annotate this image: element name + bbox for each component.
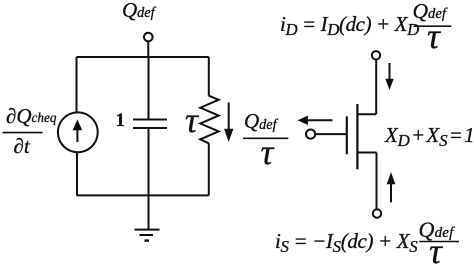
node Q_def terminal circle [144, 33, 153, 42]
wire left branch upper [76, 57, 78, 112]
arrow i_S (up) [390, 184, 392, 202]
transistor M1 drain tap [357, 113, 376, 115]
fraction bar Qdef/tau bottom formula [419, 241, 459, 243]
wire terminal stub [147, 41, 149, 57]
fraction bar Qdef/tau top formula [414, 25, 452, 27]
label Q_def (top) [122, 0, 155, 21]
capacitor C1 plates [133, 119, 167, 121]
label Q_def numerator (bottom formula fraction) [419, 219, 454, 241]
fraction bar Qdef/tau middle [243, 137, 288, 139]
ground symbol [135, 229, 160, 231]
arrow pointing left to gate [306, 119, 333, 121]
node gate terminal circle [306, 130, 315, 139]
label Q_def numerator (top formula fraction) [413, 1, 446, 23]
label tau denominator (top formula fraction) [427, 18, 440, 54]
label tau (resistor) [185, 102, 198, 138]
wire source lead [376, 153, 378, 209]
node source terminal circle [373, 209, 381, 217]
label dt denominator [14, 136, 30, 157]
transistor M1 source tap [357, 152, 376, 154]
transistor M1 gate bar [346, 116, 348, 154]
current source arrow [76, 128, 78, 142]
wire gate lead [315, 133, 347, 135]
label Q_def numerator (middle fraction) [244, 111, 277, 132]
wire ground lead [148, 195, 150, 229]
label tau denominator (bottom formula fraction) [429, 233, 442, 266]
resistor tau zigzag [200, 96, 218, 144]
arrow i_D (down) [389, 63, 391, 80]
wire left branch lower [76, 152, 78, 195]
resistor tau bottom lead [208, 143, 210, 195]
label capacitor value 1 [116, 111, 126, 130]
transistor M1 channel bar [356, 104, 358, 169]
label tau denominator (middle fraction) [261, 134, 274, 170]
label X_D + X_S = 1 [385, 125, 474, 146]
wire drain lead [375, 60, 377, 115]
arrow current through resistor (down) [228, 103, 230, 134]
resistor tau top lead [208, 57, 210, 96]
wire capacitor top lead [148, 57, 150, 120]
label dQ_cheq numerator [6, 106, 57, 127]
formula i_D = I_D(dc) + X_D [280, 14, 419, 35]
wire bottom rail [77, 194, 209, 196]
wire top rail [77, 56, 209, 58]
current source I1 circle [58, 112, 98, 152]
node drain terminal circle [372, 51, 380, 59]
formula i_S = -I_S(dc) + X_S [275, 231, 417, 252]
wire capacitor bottom lead [148, 128, 150, 195]
fraction bar dQcheq/dt [3, 132, 43, 134]
